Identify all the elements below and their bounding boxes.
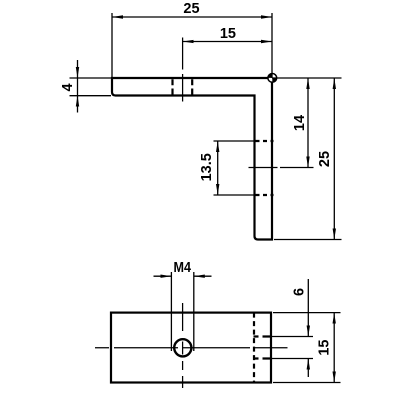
part outline: L-bracket profile xyxy=(112,78,272,240)
dimension 13.5 (arm hole span) xyxy=(214,141,255,195)
dimension 15 (hole position) xyxy=(183,41,272,43)
extension line: arm hole upper xyxy=(271,336,313,338)
extension line: arm hole lower xyxy=(271,358,313,360)
hidden line: arm hole upper edge (top view) xyxy=(254,335,272,337)
extension line: top right (from corner dot) xyxy=(272,77,342,79)
svg-text:14: 14 xyxy=(292,115,308,131)
dimension 25 (top width) xyxy=(112,13,272,78)
centerline: hole axis horizontal xyxy=(95,347,288,349)
part outline: base plate rectangle xyxy=(111,313,271,383)
dimension 14 (hole center from top) xyxy=(307,78,309,168)
svg-text:15: 15 xyxy=(317,340,333,356)
svg-text:25: 25 xyxy=(183,1,199,17)
svg-text:15: 15 xyxy=(220,26,236,42)
M4 tapped hole xyxy=(174,339,191,356)
centerline: arm hole axis (horizontal) xyxy=(249,167,314,169)
dimension 4 (plate thickness) xyxy=(70,60,112,113)
hidden line: arm hole upper edge (side view) xyxy=(256,140,274,142)
svg-text:25: 25 xyxy=(317,151,333,167)
centerline: M4 hole axis (vertical) xyxy=(182,38,184,102)
centerline: hole axis vertical xyxy=(182,303,184,388)
hidden line: M4 hole left edge (side view) xyxy=(171,79,173,95)
extension line: bottom of arm (right) xyxy=(274,239,342,241)
hidden line: arm hole lower edge (top view) xyxy=(254,357,272,359)
svg-text:4: 4 xyxy=(60,83,76,91)
dimension 25 (arm length, right) xyxy=(333,78,335,240)
dimension M4 (thread) xyxy=(154,272,212,351)
svg-text:6: 6 xyxy=(292,288,308,296)
corner reference point symbol (quadrant circle) xyxy=(268,74,277,83)
svg-text:M4: M4 xyxy=(174,260,192,276)
svg-text:13.5: 13.5 xyxy=(199,153,215,181)
hidden line: M4 hole right edge (side view) xyxy=(191,79,193,95)
hidden line: arm hole lower edge (side view) xyxy=(256,194,274,196)
hidden line: bend line xyxy=(253,313,255,383)
dimension 6 (arm hole diameter) xyxy=(307,279,309,377)
dimension 15 (plate depth) xyxy=(273,313,341,383)
